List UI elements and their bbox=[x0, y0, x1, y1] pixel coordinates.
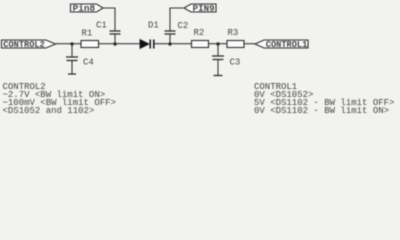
diode D1 bbox=[140, 21, 159, 49]
resistor R2 bbox=[192, 28, 209, 48]
wire node A to C4 bbox=[71, 44, 73, 57]
node D junction bbox=[216, 42, 219, 45]
net flag CONTROL1 bbox=[255, 40, 308, 50]
capacitor C4 bbox=[66, 57, 94, 68]
resistor R1 bbox=[81, 29, 99, 48]
capacitor C2 bbox=[165, 21, 189, 34]
ground under C4 bbox=[68, 73, 76, 75]
resistor R3 bbox=[227, 28, 244, 48]
wire C2 to node C bbox=[169, 34, 171, 44]
wire C4 to ground bbox=[71, 61, 73, 75]
svg-text:0V <DS1102 - BW limit ON>: 0V <DS1102 - BW limit ON> bbox=[254, 106, 389, 116]
svg-text:CONTROL2: CONTROL2 bbox=[3, 40, 45, 50]
node B junction bbox=[113, 42, 116, 45]
node A junction bbox=[70, 42, 73, 45]
wire CONTROL2 to R1 bbox=[56, 43, 82, 45]
wire C3 to ground bbox=[217, 60, 219, 76]
annotation CONTROL1 notes bbox=[254, 82, 394, 116]
node C junction bbox=[168, 42, 171, 45]
wire PIN9 to C2 bbox=[170, 8, 184, 31]
svg-text:C2: C2 bbox=[178, 21, 189, 31]
ground under C3 bbox=[214, 75, 223, 77]
svg-text:C1: C1 bbox=[96, 21, 107, 31]
svg-text:PIN9: PIN9 bbox=[193, 4, 215, 14]
svg-text:R3: R3 bbox=[228, 28, 239, 38]
wire Pin8 to C1 bbox=[103, 8, 115, 31]
svg-text:<DS1052 and 1102>: <DS1052 and 1102> bbox=[3, 106, 95, 116]
capacitor C3 bbox=[212, 56, 240, 68]
wire R3 to CONTROL1 bbox=[244, 43, 255, 45]
svg-text:Pin8: Pin8 bbox=[73, 4, 96, 14]
svg-text:CONTROL1: CONTROL1 bbox=[266, 40, 308, 50]
wire C1 to node B bbox=[114, 34, 116, 44]
pin flag PIN9 bbox=[184, 4, 216, 14]
svg-text:C4: C4 bbox=[83, 58, 94, 68]
wire D1 to R2 bbox=[155, 43, 192, 45]
pin flag Pin8 bbox=[71, 4, 104, 14]
svg-text:R1: R1 bbox=[82, 29, 93, 39]
net flag CONTROL2 bbox=[2, 40, 56, 50]
annotation CONTROL2 notes bbox=[3, 82, 116, 116]
svg-text:C3: C3 bbox=[230, 58, 241, 68]
wire R1 to D1 bbox=[99, 43, 141, 45]
wire node D to C3 bbox=[217, 44, 219, 56]
capacitor C1 bbox=[96, 21, 121, 35]
svg-text:R2: R2 bbox=[194, 28, 205, 38]
svg-text:D1: D1 bbox=[148, 21, 159, 31]
wire R2 to R3 bbox=[209, 43, 228, 45]
